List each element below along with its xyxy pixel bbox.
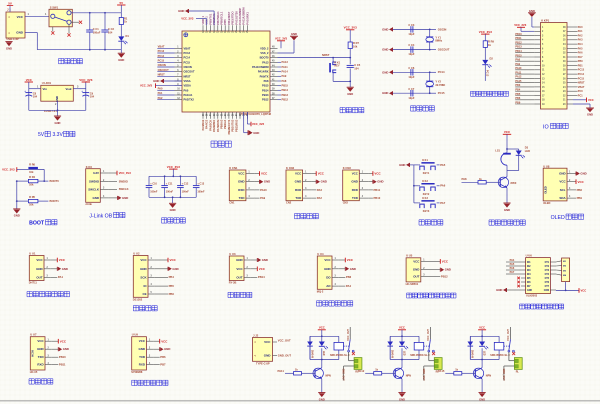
svg-text:PA11: PA11 [278, 369, 285, 373]
svg-text:COM: COM [544, 290, 549, 292]
resistor R9 [484, 34, 486, 41]
svg-text:RXD: RXD [295, 188, 301, 192]
svg-text:VCC: VCC [559, 180, 566, 184]
svg-text:U U2: U U2 [133, 251, 140, 255]
svg-text:KEY2: KEY2 [423, 193, 430, 196]
svg-text:GND: GND [324, 267, 331, 271]
caption PIR module [407, 293, 412, 298]
svg-text:<: < [8, 15, 10, 19]
svg-text:PA6/MISO: PA6/MISO [212, 120, 216, 132]
svg-text:U U9: U U9 [132, 333, 139, 337]
svg-text:3.3V: 3.3V [53, 132, 64, 138]
module U U1 body [29, 256, 44, 281]
key bus vertical wire [410, 164, 414, 166]
svg-text:PA5: PA5 [440, 163, 446, 167]
svg-text:PA10: PA10 [260, 188, 267, 192]
svg-text:GND: GND [262, 258, 268, 262]
svg-text:GND: GND [63, 347, 69, 351]
svg-text:+: + [81, 89, 83, 93]
svg-text:PB14: PB14 [515, 50, 522, 53]
GND symbol relay PA11 [321, 379, 323, 393]
svg-text:<: < [254, 354, 256, 358]
svg-text:SRD-05VDC-SL-C: SRD-05VDC-SL-C [410, 354, 430, 357]
svg-text:TXD: TXD [352, 196, 358, 200]
svg-text:PA9: PA9 [515, 63, 520, 66]
capacitor C13 [195, 176, 197, 185]
svg-text:TXD: TXD [295, 196, 301, 200]
svg-text:104: 104 [90, 95, 95, 99]
svg-text:GND: GND [238, 180, 245, 184]
svg-text:GND_OUT: GND_OUT [422, 369, 425, 382]
svg-text:PA8: PA8 [282, 79, 287, 83]
svg-text:GND: GND [122, 196, 128, 200]
svg-text:C C6: C C6 [408, 66, 414, 70]
svg-text:DS1302: DS1302 [133, 297, 143, 301]
capacitor C1 [89, 13, 91, 30]
svg-text:VCC: VCC [479, 326, 485, 330]
svg-text:PC13: PC13 [486, 70, 489, 77]
svg-text:PB9: PB9 [515, 101, 520, 104]
svg-text:OLED: OLED [551, 215, 565, 221]
svg-text:LED: LED [322, 351, 324, 356]
GND symbol alarm [506, 188, 508, 203]
output power connector J2 [253, 338, 273, 362]
svg-text:BOOT1: BOOT1 [50, 199, 60, 203]
VCC symbol IO header right [573, 99, 587, 101]
green terminal block PA15 [508, 352, 510, 361]
svg-text:VCC: VCC [578, 180, 585, 184]
svg-text:BOOT: BOOT [29, 221, 45, 227]
svg-text:PB0: PB0 [578, 60, 583, 63]
svg-text:OT6: OT6 [545, 282, 550, 284]
svg-text:VCC: VCC [352, 172, 359, 176]
wire LDO output [73, 88, 86, 90]
caption reset circuit [340, 108, 345, 113]
serial connector CN3 [343, 170, 360, 201]
svg-text:U U5: U U5 [406, 254, 413, 258]
svg-text:PB12: PB12 [282, 98, 289, 102]
svg-text:3.3V: 3.3V [93, 171, 99, 175]
svg-text:PA12: PA12 [358, 369, 365, 373]
svg-text:C C5: C C5 [354, 63, 360, 67]
svg-text:D1: D1 [126, 34, 130, 38]
caption crystal circuit [411, 106, 416, 111]
svg-text:GND: GND [580, 172, 586, 176]
GND symbol power circuit [120, 50, 122, 54]
svg-text:VBAT: VBAT [184, 46, 191, 50]
svg-text:PC1: PC1 [578, 94, 583, 97]
svg-text:D2: D2 [490, 56, 494, 60]
NRST wire MCU to reset circuit [278, 57, 351, 59]
MCU top pins [202, 25, 204, 31]
svg-text:<: < [254, 340, 256, 344]
switch SW1 [49, 9, 72, 27]
svg-text:1N4148: 1N4148 [391, 350, 394, 359]
svg-text:PA8: PA8 [462, 177, 468, 181]
svg-text:PB3/JTDO: PB3/JTDO [231, 11, 235, 24]
svg-text:PB5: PB5 [169, 284, 175, 288]
serial connector CN2 [286, 170, 303, 201]
svg-text:GND: GND [253, 131, 259, 135]
caption stepper motor [520, 304, 525, 309]
svg-text:12pF: 12pF [408, 96, 414, 100]
svg-text:NPN: NPN [486, 374, 491, 377]
svg-text:SCL: SCL [560, 188, 566, 192]
svg-text:PA2: PA2 [158, 96, 163, 100]
svg-text:HC-05: HC-05 [30, 370, 38, 374]
svg-text:PB5: PB5 [515, 93, 520, 96]
VCC_3V3 below MCU [246, 112, 248, 124]
capacitor C11 [164, 176, 166, 185]
regulator U1 LD1117 [41, 85, 74, 101]
svg-text:VCC_3V3: VCC_3V3 [275, 37, 288, 41]
svg-text:VDDA: VDDA [184, 84, 191, 88]
svg-text:VCC: VCC [399, 326, 405, 330]
caption clock module [133, 306, 138, 311]
svg-text:PA10: PA10 [515, 67, 522, 70]
svg-text:VCC: VCC [140, 258, 147, 262]
svg-text:VCC: VCC [37, 339, 44, 343]
OLED connector body [543, 168, 567, 201]
svg-text:HC05: HC05 [31, 350, 35, 357]
GND symbol LDO [57, 110, 59, 116]
base resistor PA12 [365, 372, 374, 374]
svg-text:PA1/A1: PA1/A1 [184, 93, 193, 97]
svg-text:PA11: PA11 [282, 65, 289, 69]
LED D1 [118, 36, 124, 41]
wire J1 VCC to SW1 [25, 15, 49, 17]
svg-text:GND: GND [172, 267, 178, 271]
capacitor C3 [393, 28, 430, 30]
svg-text:LED: LED [482, 351, 484, 356]
svg-text:PA14/RX: PA14/RX [258, 70, 269, 74]
svg-text:VCC: VCC [170, 258, 177, 262]
svg-text:PA3/RX2: PA3/RX2 [201, 119, 205, 130]
svg-text:OSCOUT: OSCOUT [184, 70, 196, 74]
net labels CN2 [312, 189, 317, 191]
svg-text:OSCIN: OSCIN [158, 63, 166, 67]
GND arrow CN2 [312, 181, 317, 183]
svg-text:RXD: RXD [37, 363, 43, 367]
svg-text:PB4/JRST: PB4/JRST [227, 11, 231, 24]
svg-text:U U6: U U6 [526, 254, 533, 258]
svg-text:PB4: PB4 [169, 275, 175, 279]
svg-text:+ C13: + C13 [197, 182, 204, 185]
svg-text:1N4148: 1N4148 [471, 350, 474, 359]
relay switch contacts PA11 [344, 345, 350, 347]
svg-text:12pF: 12pF [408, 75, 414, 79]
svg-text:PA4: PA4 [346, 284, 352, 288]
svg-text:PA9/TX: PA9/TX [260, 74, 269, 78]
GND arrow CN1 [255, 181, 260, 183]
svg-text:PC14: PC14 [184, 56, 191, 60]
svg-text:K CN3: K CN3 [343, 166, 352, 170]
capacitor C8 electrolytic [25, 92, 32, 94]
net label PC14 [430, 71, 436, 73]
GND symbol below J1 [5, 41, 12, 43]
GND arrow below MCU [243, 112, 245, 133]
svg-text:NPN: NPN [406, 374, 411, 377]
svg-text:VCC: VCC [347, 258, 354, 262]
svg-text:OSCIN: OSCIN [184, 65, 192, 69]
ULN2003 driver body [526, 258, 551, 294]
svg-text:GND: GND [319, 397, 325, 401]
GND symbol filter [172, 197, 174, 203]
svg-text:GND: GND [264, 354, 272, 358]
SWCLK net label [109, 188, 117, 190]
svg-text:GND: GND [178, 9, 184, 13]
junction reset node [349, 57, 351, 59]
svg-text:GND: GND [559, 172, 566, 176]
svg-text:U U4: U U4 [317, 252, 324, 256]
svg-text:PA9: PA9 [282, 74, 287, 78]
svg-text:5V: 5V [38, 132, 45, 138]
svg-text:PB6/SCL1: PB6/SCL1 [220, 11, 224, 24]
svg-text:GND: GND [153, 79, 159, 83]
svg-text:VDD_1: VDD_1 [201, 15, 205, 24]
svg-text:C C1: C C1 [93, 27, 99, 31]
power connector J1 [6, 12, 25, 38]
svg-text:10k: 10k [29, 203, 34, 207]
svg-text:GND: GND [382, 70, 388, 74]
alarm top wires [506, 134, 508, 149]
svg-text:PA1: PA1 [578, 30, 583, 33]
svg-text:OT7: OT7 [545, 286, 550, 288]
module U U7 body [30, 337, 45, 370]
svg-text:PB0/A3: PB0/A3 [220, 119, 224, 129]
relay coil box PA11 [334, 342, 344, 350]
module U U3 body [229, 256, 244, 281]
svg-text:U U1: U U1 [29, 251, 36, 255]
svg-text:10k: 10k [353, 44, 358, 48]
svg-text:OUT: OUT [413, 275, 419, 279]
svg-text:PA6: PA6 [510, 267, 515, 270]
module U U2 body [133, 256, 148, 298]
svg-text:PB12: PB12 [515, 41, 522, 44]
svg-text:VCC: VCC [588, 98, 594, 102]
svg-text:PA0: PA0 [184, 88, 189, 92]
capacitor C7 [393, 92, 430, 94]
svg-text:PB2/BOOT1: PB2/BOOT1 [227, 119, 231, 134]
svg-text:R R5: R R5 [29, 195, 35, 199]
svg-text:VSS_2: VSS_2 [260, 51, 269, 55]
svg-text:PC15: PC15 [438, 91, 445, 95]
net label PA6 [437, 185, 440, 187]
svg-text:PC13: PC13 [578, 69, 585, 72]
svg-text:GND: GND [377, 180, 383, 184]
svg-text:PB14: PB14 [262, 88, 269, 92]
GND symbol relay PA15 [481, 379, 483, 393]
svg-text:PB13: PB13 [262, 93, 269, 97]
svg-text:GND: GND [413, 268, 420, 272]
LED D2 program running [484, 47, 486, 60]
svg-text:OT4: OT4 [545, 273, 550, 276]
filter bottom rail [149, 196, 196, 198]
resistor R7 [348, 42, 352, 49]
svg-text:VCC: VCC [264, 340, 271, 344]
svg-text:NRST: NRST [322, 53, 330, 57]
svg-text:USB-C-6P: USB-C-6P [7, 37, 20, 41]
buzzer LS1 [503, 153, 511, 155]
svg-text:PA10/RX1: PA10/RX1 [245, 12, 249, 25]
svg-text:PA9: PA9 [260, 196, 266, 200]
svg-text:12pF: 12pF [408, 52, 414, 56]
svg-text:PA13: PA13 [262, 60, 269, 64]
svg-text:J-Link OB: J-Link OB [89, 213, 112, 219]
svg-text:Vin: Vin [43, 87, 48, 91]
svg-text:PA15: PA15 [438, 369, 445, 373]
svg-text:PA15/JTDI: PA15/JTDI [234, 11, 238, 24]
svg-text:PB10/TX3: PB10/TX3 [231, 119, 235, 132]
MCU left pins [175, 47, 183, 49]
push button K1 [414, 164, 419, 166]
svg-text:GND: GND [118, 58, 124, 62]
svg-text:VCC_3V3: VCC_3V3 [140, 84, 153, 88]
svg-text:VDD_2: VDD_2 [260, 46, 269, 50]
svg-text:J 1: J 1 [7, 8, 11, 12]
svg-text:VCC: VCC [504, 130, 511, 134]
svg-text:GND_OUT: GND_OUT [278, 353, 292, 357]
svg-text:GND: GND [14, 214, 20, 218]
LED D3 alarm [516, 151, 522, 156]
relay LED PA15 [479, 342, 485, 347]
VCC symbol OLED [575, 179, 577, 184]
net label OSCIN [430, 28, 436, 30]
caption dian-yuan-dian-lu [59, 59, 64, 64]
svg-text:U LD01: U LD01 [42, 81, 52, 85]
caption raindrop module [228, 292, 233, 297]
svg-text:NPN: NPN [326, 374, 331, 377]
svg-text:GND_OUT: GND_OUT [342, 369, 345, 382]
svg-text:KEY: KEY [335, 64, 340, 67]
svg-text:KEY3: KEY3 [423, 210, 430, 213]
GND arrow CN3 [368, 181, 373, 183]
svg-text:PB10: PB10 [374, 196, 381, 200]
VCC symbol CN1 [255, 173, 260, 175]
svg-text:K KP1: K KP1 [541, 19, 549, 23]
svg-text:+ C11: + C11 [166, 182, 173, 185]
svg-text:PB13: PB13 [515, 46, 522, 49]
svg-text:RXD: RXD [139, 363, 145, 367]
stepper motor connector [562, 258, 570, 282]
svg-text:VCC_3V3: VCC_3V3 [79, 78, 92, 82]
svg-text:5V: 5V [120, 1, 124, 5]
svg-text:GND: GND [295, 180, 302, 184]
svg-text:OSCOUT: OSCOUT [158, 68, 170, 72]
capacitor C12 [179, 176, 181, 185]
svg-text:PA0: PA0 [158, 87, 163, 91]
base resistor PA11 [285, 372, 294, 374]
svg-text:PA15: PA15 [515, 80, 522, 83]
svg-text:PB11: PB11 [59, 363, 66, 367]
svg-text:AO: AO [326, 284, 331, 288]
svg-text:VCC: VCC [17, 15, 24, 19]
relay switch contacts PA12 [424, 345, 430, 347]
svg-text:SRD-05VDC-SL-C: SRD-05VDC-SL-C [330, 354, 350, 357]
svg-text:PA7: PA7 [578, 56, 583, 59]
sheet bottom border [0, 400, 600, 402]
net label PA7 [437, 202, 440, 204]
wire GND rail of power circuit [25, 32, 37, 34]
svg-text:PB3: PB3 [346, 275, 352, 279]
caption smoke detection module [317, 301, 322, 306]
svg-text:MQ-2: MQ-2 [317, 289, 324, 293]
svg-text:OT3: OT3 [545, 270, 550, 272]
svg-text:RXD: RXD [352, 188, 358, 192]
svg-text:VBAT: VBAT [158, 45, 165, 49]
svg-text:VCC_3V3: VCC_3V3 [181, 17, 194, 21]
net label OSCOUT [430, 49, 436, 51]
svg-text:SCK: SCK [140, 275, 147, 279]
svg-text:VCC: VCC [295, 172, 302, 176]
svg-text:PC13: PC13 [158, 49, 165, 53]
svg-text:GND: GND [291, 32, 297, 36]
svg-text:GND: GND [445, 268, 451, 272]
svg-text:PA4: PA4 [578, 43, 583, 46]
svg-text:VCC: VCC [324, 258, 331, 262]
svg-text:VCC_3V3: VCC_3V3 [2, 167, 15, 171]
svg-text:GND: GND [55, 96, 59, 102]
svg-text:GND: GND [16, 31, 24, 35]
svg-text:VCC_OUT: VCC_OUT [507, 328, 510, 340]
flyback diode PA12 [387, 342, 393, 346]
svg-text:PA2/TX2: PA2/TX2 [184, 98, 195, 102]
relay coil loop PA11 [310, 335, 339, 337]
svg-text:+ C12: + C12 [182, 182, 189, 185]
IO header KP1 body [541, 23, 568, 110]
svg-text:R R4: R R4 [29, 175, 35, 179]
svg-text:VCC: VCC [581, 288, 587, 292]
svg-text:VCC_OUT: VCC_OUT [347, 328, 350, 340]
svg-text:PB6: PB6 [169, 292, 175, 296]
svg-text:VCC_3V3: VCC_3V3 [252, 122, 265, 126]
svg-text:K K2: K K2 [422, 180, 428, 183]
svg-text:VCC_3V3: VCC_3V3 [119, 171, 132, 175]
svg-text:PA5: PA5 [510, 263, 515, 266]
push button K1 KEY vertical [332, 58, 334, 63]
caption serial port circuit [295, 214, 300, 219]
svg-text:GND: GND [92, 196, 99, 200]
svg-text:PB8: PB8 [577, 188, 583, 192]
push button K2 [414, 185, 419, 187]
svg-text:VCC: VCC [261, 172, 268, 176]
svg-text:PA3: PA3 [317, 188, 323, 192]
relay LED PA11 [319, 342, 325, 347]
svg-text:104: 104 [108, 30, 113, 34]
svg-text:PA8: PA8 [264, 79, 269, 83]
svg-text:PA1: PA1 [58, 275, 64, 279]
svg-text:VBAT: VBAT [578, 86, 585, 89]
svg-text:PA14: PA14 [282, 70, 289, 74]
svg-text:U U3: U U3 [229, 252, 236, 256]
svg-text:HC-SR501: HC-SR501 [406, 282, 419, 286]
VCC symbol CN3 [368, 173, 373, 175]
capacitor C2 [104, 13, 106, 30]
svg-text:100nF: 100nF [197, 191, 205, 194]
svg-text:C C4: C C4 [408, 43, 414, 47]
svg-text:GND: GND [140, 267, 147, 271]
svg-text:5V: 5V [8, 2, 12, 6]
svg-text:PB11/RX3: PB11/RX3 [234, 119, 238, 132]
svg-text:TYPE-C-8P: TYPE-C-8P [256, 362, 270, 366]
svg-text:OT2: OT2 [545, 266, 550, 268]
svg-text:PA4/CS: PA4/CS [205, 119, 209, 128]
caption filter circuit [162, 218, 167, 223]
svg-text:VCC: VCC [319, 326, 325, 330]
svg-text:GND: GND [62, 267, 68, 271]
svg-text:100nF: 100nF [182, 191, 190, 194]
svg-text:K K6: K K6 [86, 165, 93, 169]
